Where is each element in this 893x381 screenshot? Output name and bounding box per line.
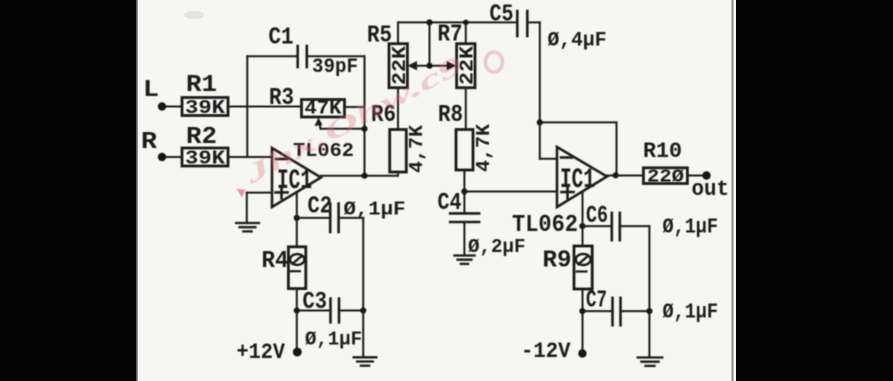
wire to C3: [297, 310, 331, 312]
plus marker: [276, 191, 288, 194]
junction C7 right: [646, 308, 652, 314]
wire IC1b bias down: [582, 192, 584, 246]
wire IC1b output: [607, 175, 643, 177]
svg-text:C1: C1: [269, 25, 294, 52]
svg-text:R2: R2: [186, 124, 217, 151]
wire top to R5: [397, 22, 399, 43]
wire R3 right to feedback node: [345, 106, 365, 108]
svg-text:C3: C3: [303, 289, 328, 316]
node A summing junction vertical: [246, 56, 248, 157]
svg-text:39K: 39K: [185, 97, 226, 119]
resistor R7 trimmer 22K: [457, 44, 475, 88]
resistor R10: [643, 168, 687, 184]
wire IC1a bias down: [296, 192, 298, 247]
scan smudge: [184, 11, 204, 19]
svg-text:C2: C2: [308, 194, 333, 221]
resistor R9 preset: [574, 246, 592, 289]
junction C4/R8: [461, 188, 467, 194]
svg-text:C5: C5: [490, 2, 514, 29]
wire C5 right: [527, 21, 540, 23]
ground below C4: [453, 256, 476, 264]
svg-text:Ø,1µF: Ø,1µF: [305, 329, 362, 351]
svg-text:4,7K: 4,7K: [406, 124, 428, 173]
resistor R4 preset: [288, 247, 305, 289]
resistor R6 4,7K: [390, 130, 407, 173]
svg-text:L: L: [143, 77, 159, 104]
+12V terminal: [293, 348, 302, 357]
ground below C3: [353, 357, 378, 365]
watermark red arrow: [237, 189, 246, 198]
svg-text:-12V: -12V: [521, 339, 571, 364]
junction output-feedback b: [613, 172, 619, 178]
-12V terminal: [578, 349, 586, 357]
minus marker: [561, 156, 572, 159]
op-amp IC1a triangle: [272, 148, 321, 207]
wire IC1a output: [321, 175, 398, 177]
wire C1 to feedback node: [307, 55, 365, 57]
svg-text:22Ø: 22Ø: [647, 168, 684, 188]
junction C3 right: [360, 307, 366, 313]
capacitor C1: [296, 46, 299, 67]
wire R9 to -12V: [582, 289, 584, 352]
junction feedback: [537, 119, 543, 125]
wire node B to plus input: [464, 191, 557, 193]
wire R4 to +12V: [296, 289, 298, 349]
svg-text:Ø,2µF: Ø,2µF: [468, 236, 526, 258]
svg-text:R10: R10: [643, 139, 682, 164]
ground at IC1a plus input: [235, 223, 260, 231]
svg-text:Ø,4µF: Ø,4µF: [548, 30, 607, 53]
wire node B to C4: [463, 192, 465, 214]
svg-text:Ø,1µF: Ø,1µF: [344, 199, 406, 221]
junction C6: [579, 223, 585, 229]
junction C2: [294, 215, 300, 221]
junction C7: [579, 308, 585, 314]
svg-text:R4: R4: [262, 248, 289, 275]
junction top wiper riser: [426, 19, 432, 25]
resistor R5 trimmer 22K: [389, 44, 407, 88]
wire C7 right: [621, 310, 650, 312]
wire C3 right: [339, 310, 363, 312]
resistor R3 trimmer: [302, 100, 345, 118]
svg-text:out: out: [692, 177, 730, 202]
wire C5 down to minus input: [539, 22, 541, 158]
wire R to R2: [166, 156, 182, 158]
wire L to R1: [166, 106, 182, 108]
wire output up to R6: [397, 172, 399, 176]
capacitor C4: [450, 212, 479, 215]
right black margin bar: [736, 0, 893, 381]
svg-text:4,7K: 4,7K: [473, 123, 495, 172]
wire feedback top: [540, 121, 617, 123]
wire R1 to R3 through node A: [228, 106, 302, 108]
wire R3 wiper to feedback node: [321, 128, 365, 130]
wire C6 right: [620, 225, 650, 227]
node R input terminal: [158, 153, 166, 161]
wire top R5/R7/C5: [398, 21, 517, 23]
wire to C6: [583, 225, 612, 227]
svg-text:IC1: IC1: [560, 165, 595, 196]
page edge line left: [136, 0, 138, 381]
junction output-feedback: [361, 173, 367, 179]
wire to C7: [583, 310, 613, 312]
wire R2 to op-amp minus input: [228, 156, 272, 158]
wire C4 to ground: [463, 222, 465, 255]
wire down to ground: [362, 311, 364, 357]
capacitor C5: [516, 11, 519, 36]
page edge line right: [732, 0, 734, 381]
wire C6/C7 right vertical: [648, 226, 650, 357]
svg-text:Ø,1µF: Ø,1µF: [663, 217, 719, 240]
minus marker: [276, 158, 287, 161]
svg-text:+12V: +12V: [237, 340, 286, 365]
wire to IC1b minus input: [540, 158, 557, 160]
R3 wiper arrow: [315, 118, 323, 127]
wire C2 right: [339, 217, 364, 219]
wire plus input to ground: [247, 192, 272, 194]
wire R5 to R6: [397, 88, 399, 130]
op-amp IC1b triangle: [557, 147, 607, 207]
capacitor C3: [329, 299, 332, 323]
wire R8 to node B: [463, 170, 465, 192]
wire to C2: [297, 217, 330, 219]
svg-text:Ø,1µF: Ø,1µF: [663, 302, 719, 325]
plus marker: [562, 191, 574, 194]
wire R7 to R8: [465, 88, 467, 130]
left black margin bar: [0, 0, 137, 381]
svg-text:R9: R9: [543, 248, 572, 275]
ground below C6/C7: [637, 358, 664, 366]
capacitor C7: [611, 298, 614, 325]
svg-text:C7: C7: [586, 288, 607, 315]
junction wiper-feedback: [361, 126, 367, 132]
svg-text:R3: R3: [269, 85, 294, 112]
resistor R1: [182, 98, 228, 116]
resistor R2: [182, 148, 228, 166]
resistor R8 4,7K: [456, 130, 473, 171]
svg-text:39pF: 39pF: [312, 56, 358, 79]
node L input terminal: [158, 102, 166, 110]
capacitor C6: [610, 213, 613, 240]
wire node A to C1: [247, 55, 297, 57]
wire R10 to out: [687, 175, 702, 177]
svg-text:R8: R8: [438, 102, 463, 129]
svg-text:R1: R1: [186, 72, 217, 99]
wire feedback vertical to op-amp output: [364, 56, 366, 176]
node out terminal: [702, 171, 710, 179]
wire C2/C3 right vertical: [362, 218, 364, 311]
wire wiper riser: [429, 22, 431, 65]
wire feedback down to output: [616, 122, 618, 175]
svg-text:TL062: TL062: [512, 212, 578, 239]
svg-text:C6: C6: [586, 203, 608, 230]
svg-text:R: R: [141, 129, 158, 156]
wire top to R7: [465, 22, 467, 43]
junction wipers: [426, 63, 432, 69]
junction C3: [294, 307, 300, 313]
junction R7 top: [463, 20, 469, 26]
capacitor C2: [329, 204, 332, 232]
watermark script: [239, 50, 468, 190]
wiper tie line R5-R7: [414, 65, 449, 67]
